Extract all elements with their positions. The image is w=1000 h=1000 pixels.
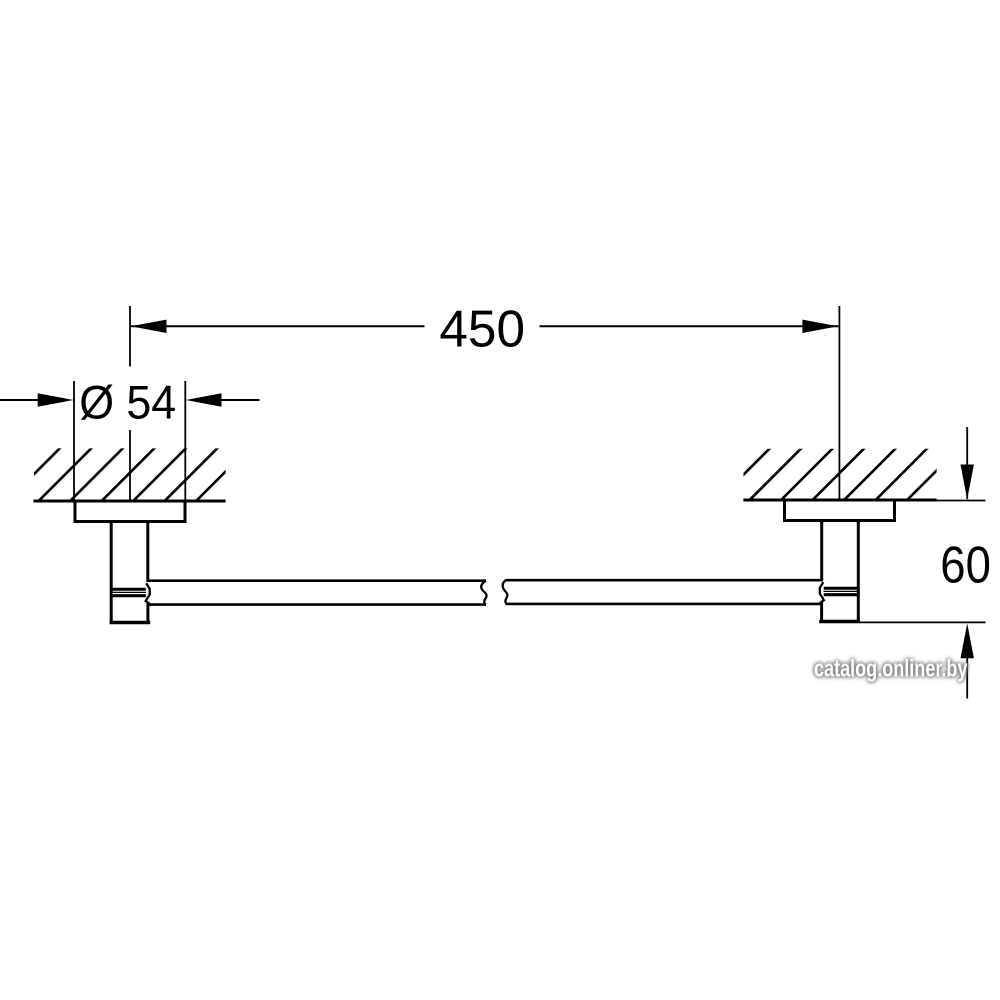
svg-text:60: 60 [940,536,991,594]
svg-text:450: 450 [439,300,525,358]
svg-text:catalog.onliner.by: catalog.onliner.by [814,656,968,683]
svg-text:Ø 54: Ø 54 [79,377,176,430]
